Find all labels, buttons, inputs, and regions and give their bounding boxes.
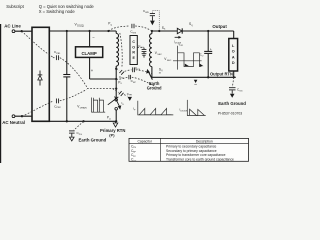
svg-text:Earth Ground: Earth Ground [218, 101, 246, 106]
svg-text:Q: Q [161, 70, 163, 72]
svg-text:Description: Description [196, 140, 213, 144]
svg-text:D: D [232, 61, 235, 65]
svg-text:WE: WE [145, 12, 149, 14]
svg-text:AC Line: AC Line [4, 23, 21, 28]
svg-text:A: A [232, 55, 235, 59]
svg-text:Primary to transformer core ca: Primary to transformer core capacitance [166, 153, 226, 157]
svg-text:CLAMP: CLAMP [81, 51, 96, 56]
svg-text:Secondary to primary capacitan: Secondary to primary capacitance [166, 149, 217, 153]
svg-text:SEC: SEC [167, 60, 172, 62]
svg-text:+: + [210, 48, 212, 52]
svg-text:WS: WS [133, 32, 137, 34]
svg-text:Q: Q [191, 25, 193, 27]
svg-text:CG: CG [141, 47, 145, 49]
svg-text:SEC: SEC [157, 54, 162, 56]
svg-text:Subscript: Subscript [6, 4, 24, 9]
svg-text:DRAIN: DRAIN [80, 107, 87, 110]
svg-text:Q: Q [109, 119, 111, 121]
svg-text:DC(Q): DC(Q) [77, 26, 84, 28]
svg-text:O: O [232, 50, 235, 54]
svg-text:R: R [132, 51, 135, 55]
svg-text:Q: Q [110, 25, 112, 27]
svg-text:(P): (P) [109, 132, 115, 137]
svg-text:SG: SG [239, 90, 242, 92]
svg-text:PC: PC [121, 78, 124, 80]
svg-text:O: O [132, 45, 135, 49]
svg-text:PI-8537-010703: PI-8537-010703 [218, 112, 242, 116]
svg-text:Output RTN: Output RTN [210, 71, 233, 76]
svg-text:Capacitor: Capacitor [137, 140, 152, 144]
svg-text:Earth Ground: Earth Ground [79, 138, 107, 143]
svg-text:X = Switching node: X = Switching node [39, 9, 76, 14]
svg-text:Output: Output [212, 24, 227, 29]
svg-text:Ground: Ground [147, 85, 162, 90]
svg-text:CG: CG [133, 160, 137, 162]
svg-text:Primary to secondary capacitan: Primary to secondary capacitance [166, 144, 217, 148]
svg-text:Transformer core to earth grou: Transformer core to earth ground capacit… [166, 158, 234, 162]
svg-text:Q = Quiet non switching node: Q = Quiet non switching node [39, 4, 95, 9]
svg-text:DIODE: DIODE [181, 111, 188, 113]
svg-text:C: C [132, 40, 135, 44]
svg-text:PC: PC [133, 156, 136, 158]
svg-text:PG: PG [79, 134, 82, 136]
svg-text:AC Neutral: AC Neutral [2, 120, 25, 125]
